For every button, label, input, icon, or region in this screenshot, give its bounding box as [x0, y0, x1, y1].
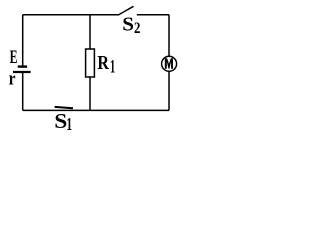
- svg-text:S: S: [54, 109, 67, 133]
- svg-text:S: S: [122, 13, 134, 36]
- svg-text:2: 2: [134, 20, 140, 38]
- svg-text:1: 1: [66, 116, 72, 135]
- svg-text:E: E: [10, 48, 18, 68]
- svg-text:R: R: [97, 51, 109, 73]
- svg-text:1: 1: [110, 56, 115, 77]
- svg-text:r: r: [9, 68, 16, 89]
